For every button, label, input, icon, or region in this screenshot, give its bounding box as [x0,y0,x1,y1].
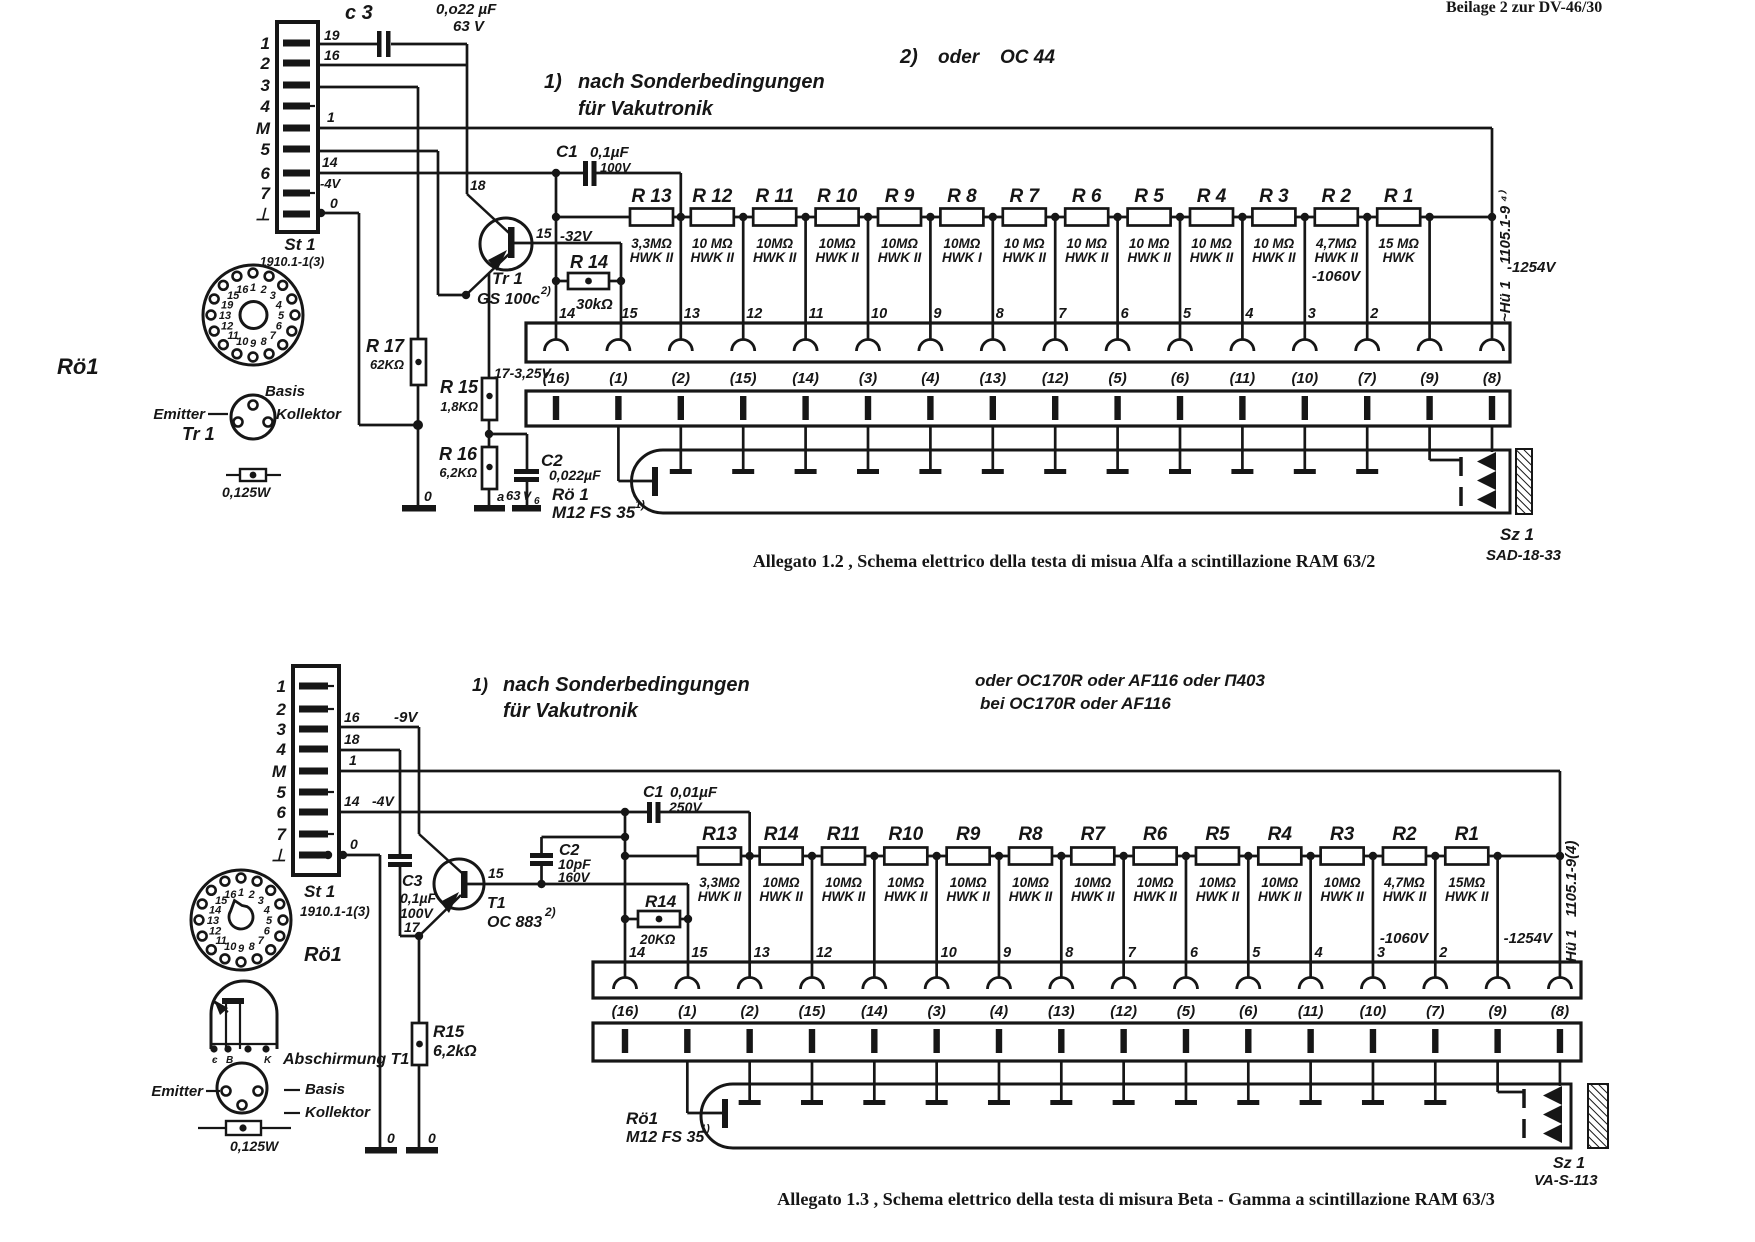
svg-text:R2: R2 [1392,824,1417,845]
wire pin GND (0) [317,195,418,425]
dynode 8 (bottom tube) [1175,1061,1197,1105]
label Hue 1 1105.1-9(4) (bottom, vertical) [1563,841,1580,962]
svg-text:R15: R15 [433,1022,465,1041]
svg-text:15MΩ: 15MΩ [1448,875,1485,890]
svg-text:4: 4 [260,97,271,116]
svg-text:(1): (1) [609,370,627,387]
svg-text:(5): (5) [1177,1003,1195,1020]
svg-text:(6): (6) [1239,1003,1257,1020]
transistor Tr1 GS100c [462,177,621,308]
svg-text:HWK II: HWK II [946,889,990,904]
svg-text:R 8: R 8 [947,186,977,207]
svg-text:R9: R9 [956,824,981,845]
svg-text:10MΩ: 10MΩ [756,236,793,251]
svg-text:(4): (4) [990,1003,1008,1020]
wire pin3 to R17 [318,87,418,339]
wire pin M (1) bottom rail [339,752,1560,771]
svg-text:HWK II: HWK II [1252,250,1296,265]
svg-text:(16): (16) [543,370,570,387]
svg-text:7: 7 [258,935,265,947]
svg-text:2: 2 [248,889,255,901]
svg-text:63 V: 63 V [453,18,486,35]
resistor R5 (bottom chain) [1196,824,1240,904]
svg-text:Hü 1 1105.1-9(4): Hü 1 1105.1-9(4) [1563,841,1580,962]
svg-text:HWK II: HWK II [1320,889,1364,904]
svg-text:Rö1: Rö1 [304,944,342,966]
svg-text:6: 6 [261,164,271,183]
svg-text:(14): (14) [861,1003,888,1020]
svg-text:(2): (2) [672,370,690,387]
svg-text:Sz 1: Sz 1 [1553,1155,1585,1172]
svg-text:(9): (9) [1488,1003,1506,1020]
svg-text:⊥: ⊥ [271,846,286,865]
transistor package Abschirmung T1 [210,981,409,1068]
dynode 9 (top tube) [1169,426,1191,474]
svg-text:-1060V: -1060V [1380,930,1430,947]
svg-text:10MΩ: 10MΩ [1012,875,1049,890]
svg-text:OC 883: OC 883 [487,914,542,931]
svg-text:0: 0 [387,1130,395,1146]
ground 0 (bottom left) [365,1130,397,1154]
svg-text:є: є [212,1055,218,1066]
svg-text:HWK II: HWK II [1003,250,1047,265]
svg-text:(13): (13) [1048,1003,1075,1020]
svg-text:M12 FS 35: M12 FS 35 [626,1129,705,1146]
label Roe1 M12 FS 35 (bottom tube) [626,1109,710,1146]
resistor R11 (bottom chain) [822,824,866,904]
svg-text:5: 5 [261,140,271,159]
contact labels (16)...(8) (top) [543,370,1502,387]
svg-text:10MΩ: 10MΩ [763,875,800,890]
svg-text:250V: 250V [668,799,703,815]
wire pin1 (19) to C3 [318,27,467,44]
svg-text:-1060V: -1060V [1312,268,1362,285]
svg-text:(1): (1) [678,1003,696,1020]
svg-text:5: 5 [1252,945,1261,961]
resistor R7 (bottom chain) [1071,824,1115,904]
svg-text:R4: R4 [1268,824,1293,845]
svg-text:HWK II: HWK II [878,250,922,265]
dynode 9 (bottom tube) [1237,1061,1259,1105]
svg-text:1: 1 [238,887,244,899]
svg-text:4: 4 [1244,306,1253,322]
svg-text:Beilage 2 zur DV-46/30: Beilage 2 zur DV-46/30 [1446,0,1602,16]
svg-text:10MΩ: 10MΩ [1261,875,1298,890]
svg-text:10 MΩ: 10 MΩ [1066,236,1107,251]
svg-text:2: 2 [1369,306,1378,322]
svg-text:14: 14 [629,945,645,961]
dynode 4 (top tube) [857,426,879,474]
transistor T1 OC883 [419,859,688,936]
svg-text:13: 13 [207,915,219,927]
svg-text:R 6: R 6 [1072,186,1102,207]
svg-text:(3): (3) [927,1003,945,1020]
resistor R10 (bottom chain) [884,824,928,904]
svg-text:17: 17 [404,919,421,935]
svg-text:2): 2) [540,285,551,297]
scintillator triangles (bottom) [1543,1061,1562,1143]
ground 0 (bottom, R15) [406,1130,438,1154]
svg-text:St 1: St 1 [284,235,315,254]
svg-text:5: 5 [277,783,287,802]
photocathode (bottom tube) [687,1061,728,1128]
svg-text:16: 16 [324,47,340,63]
resistor R16 6,2k (top) [439,444,497,505]
svg-text:6,2KΩ: 6,2KΩ [439,465,477,480]
svg-text:6: 6 [276,321,283,333]
svg-text:(10): (10) [1291,370,1318,387]
svg-text:160V: 160V [558,870,591,885]
svg-text:-32V: -32V [560,228,594,245]
svg-text:4: 4 [1314,945,1323,961]
svg-text:8: 8 [261,336,268,348]
svg-text:HWK II: HWK II [1315,250,1359,265]
label -1254V (bottom) [1504,930,1554,947]
wire bottom chain [625,852,1564,860]
svg-text:7: 7 [1058,306,1067,322]
svg-text:3: 3 [277,720,287,739]
resistor R8 (top chain) [940,186,983,265]
svg-text:1): 1) [700,1123,710,1135]
svg-text:1: 1 [327,109,335,125]
bottom -4V rail (x=625) [621,812,629,978]
svg-text:HWK II: HWK II [1445,889,1489,904]
svg-text:(7): (7) [1426,1003,1444,1020]
svg-text:Rö1: Rö1 [57,354,99,379]
svg-text:Abschirmung T1: Abschirmung T1 [282,1051,409,1068]
svg-text:für Vakutronik: für Vakutronik [503,700,639,722]
svg-text:Kollektor: Kollektor [276,406,342,423]
svg-text:HWK II: HWK II [884,889,928,904]
svg-text:⊥: ⊥ [255,205,270,224]
svg-text:(15): (15) [799,1003,826,1020]
resistor R3 (top chain) [1252,186,1296,265]
svg-text:(6): (6) [1171,370,1189,387]
svg-text:(4): (4) [921,370,939,387]
svg-text:R 4: R 4 [1197,186,1227,207]
svg-text:R10: R10 [888,824,923,845]
svg-text:C1: C1 [556,142,578,161]
tube base pin row (top) [526,391,1510,426]
dynode 10 (bottom tube) [1300,1061,1322,1105]
svg-text:10MΩ: 10MΩ [943,236,980,251]
svg-text:-1254V: -1254V [1504,930,1554,947]
label -1060V (bottom R2) [1380,930,1430,947]
svg-text:15: 15 [691,945,708,961]
svg-text:-9V: -9V [394,709,419,726]
svg-text:(12): (12) [1042,370,1069,387]
svg-text:R 3: R 3 [1259,186,1289,207]
resistor R3 (bottom chain) [1320,824,1364,904]
svg-text:12: 12 [816,945,832,961]
resistor 0,125W (top left) [222,469,281,500]
dynode 3 (top tube) [795,426,817,474]
svg-text:12: 12 [221,321,233,333]
svg-text:4,7MΩ: 4,7MΩ [1383,875,1425,890]
svg-text:63: 63 [506,488,521,503]
svg-text:V: V [523,489,532,503]
svg-text:0: 0 [428,1130,436,1146]
node 0 junction (top) [413,385,423,505]
svg-text:15: 15 [536,225,552,241]
svg-text:M12 FS 35: M12 FS 35 [552,503,636,522]
wire pin5 to emitter node [318,151,466,295]
svg-text:M: M [256,119,271,138]
svg-text:R8: R8 [1018,824,1043,845]
resistor R13 (top chain) [630,186,674,265]
wire top chain [556,213,1496,221]
svg-text:R 2: R 2 [1322,186,1352,207]
svg-text:100V: 100V [600,160,632,175]
svg-text:1: 1 [250,282,256,294]
svg-text:R 12: R 12 [692,186,733,207]
svg-text:Tr 1: Tr 1 [182,424,215,444]
svg-text:1): 1) [635,499,645,511]
svg-text:10MΩ: 10MΩ [1137,875,1174,890]
svg-text:VA-S-113: VA-S-113 [1534,1172,1598,1189]
svg-text:6: 6 [1190,945,1199,961]
svg-text:R 13: R 13 [631,186,672,207]
svg-text:0: 0 [350,836,358,852]
svg-text:14: 14 [322,154,338,170]
svg-text:oder OC170R oder AF116 oder Π4: oder OC170R oder AF116 oder Π403 [975,671,1266,690]
tube socket Roe1 (top left) [57,265,303,379]
svg-text:R5: R5 [1205,824,1230,845]
svg-text:HWK II: HWK II [1196,889,1240,904]
svg-text:R13: R13 [702,824,737,845]
svg-text:1: 1 [261,34,270,53]
svg-text:nach Sonderbedingungen: nach Sonderbedingungen [578,71,825,93]
capacitor C2 0,022uF 63V (top) [506,451,601,507]
wire M rail drop (x=1492) [1491,128,1494,217]
svg-text:R6: R6 [1143,824,1168,845]
resistor R9 (top chain) [878,186,922,265]
svg-text:3: 3 [1377,945,1385,961]
anode wire + dashed anode (top tube) [1430,426,1461,509]
svg-text:9: 9 [933,306,941,322]
resistor R6 (bottom chain) [1133,824,1177,904]
svg-text:~Hü 1 1105.1-9 ⁴⁾: ~Hü 1 1105.1-9 ⁴⁾ [1497,189,1514,322]
svg-text:(8): (8) [1551,1003,1569,1020]
scintillator hatched block Sz1 (bottom) [1588,1084,1608,1148]
svg-text:HWK II: HWK II [1065,250,1109,265]
svg-text:8: 8 [996,306,1005,322]
header Beilage 2 zur DV-46/30 [1446,0,1602,16]
svg-text:St 1: St 1 [304,882,335,901]
transistor T1 pinout (bottom left) [151,1063,371,1121]
svg-text:10MΩ: 10MΩ [819,236,856,251]
note oder OC170R oder AF116 oder Pi403 [975,671,1266,713]
svg-text:OC 44: OC 44 [1000,47,1055,68]
svg-text:12: 12 [209,926,221,938]
svg-text:Allegato 1.3 , Schema elettric: Allegato 1.3 , Schema elettrico della te… [777,1189,1495,1209]
ground C2 (top) [512,505,541,512]
svg-text:HWK II: HWK II [1009,889,1053,904]
wire C3 to collector node (vertical x=467) [466,44,469,194]
capacitor C1 0,01uF 250V (bottom) [621,784,750,856]
svg-text:HWK II: HWK II [691,250,735,265]
svg-text:HWK II: HWK II [1258,889,1302,904]
resistor R1 (bottom chain) [1445,824,1489,904]
svg-text:19: 19 [324,27,340,43]
caption Allegato 1.2 [753,551,1375,571]
tube socket Roe1 (bottom left) [191,870,342,970]
capacitor C3 0,022uF 63V [345,1,497,57]
connector St1 (bottom schematic) [271,666,370,919]
svg-text:HWK II: HWK II [822,889,866,904]
dynode 10 (top tube) [1231,426,1253,474]
dynode 5 (bottom tube) [988,1061,1010,1105]
wire pin M (1) top rail [318,109,1492,128]
svg-text:1): 1) [544,71,562,93]
resistor R2 (bottom chain) [1383,824,1427,904]
transistor Tr1 pinout (top left) [153,383,342,444]
svg-text:(2): (2) [740,1003,758,1020]
svg-text:3: 3 [261,76,271,95]
label Sz 1 VA-S-113 [1534,1155,1598,1189]
dynode 1 (top tube) [670,426,692,474]
resistor R13 (bottom chain) [698,824,742,904]
resistor R4 (bottom chain) [1258,824,1302,904]
dynode 5 (top tube) [919,426,941,474]
svg-text:0: 0 [424,488,432,504]
svg-text:R 14: R 14 [570,252,608,272]
svg-text:1: 1 [349,752,357,768]
svg-text:11: 11 [809,306,824,322]
label Sz 1 SAD-18-33 [1486,525,1562,564]
svg-text:16: 16 [224,889,237,901]
svg-text:(11): (11) [1298,1003,1324,1020]
label -1254V (top) [1507,259,1557,276]
svg-text:0,1µF: 0,1µF [400,890,437,906]
-32V rail (vertical x=556) [552,173,560,339]
svg-text:M: M [272,762,287,781]
svg-text:GS 100c: GS 100c [477,291,540,308]
node 17 (T1 collector) [404,919,423,940]
resistor R9 (bottom chain) [946,824,990,904]
dynode 12 (bottom tube) [1424,1061,1446,1105]
svg-text:10MΩ: 10MΩ [1074,875,1111,890]
svg-text:0,125W: 0,125W [222,484,272,500]
resistor R14 (bottom chain) [759,824,803,904]
svg-text:7: 7 [1128,945,1137,961]
note 1) nach Sonderbedingungen fuer Vakutronik (top) [544,71,825,120]
svg-text:(14): (14) [792,370,819,387]
svg-text:R 5: R 5 [1134,186,1164,207]
svg-text:1): 1) [472,675,488,695]
svg-text:10 MΩ: 10 MΩ [1191,236,1232,251]
capacitor C2 10pF 160V (bottom) [530,837,625,888]
svg-text:16: 16 [236,284,249,296]
dynode 11 (top tube) [1294,426,1316,474]
resistor R10 (top chain) [815,186,859,265]
svg-text:10MΩ: 10MΩ [1324,875,1361,890]
svg-text:6: 6 [1121,306,1130,322]
svg-text:0,022µF: 0,022µF [549,467,601,483]
svg-text:14: 14 [559,306,575,322]
svg-text:16: 16 [344,709,360,725]
svg-text:3,3MΩ: 3,3MΩ [631,236,672,251]
photocathode (top tube) [618,426,658,496]
svg-text:(12): (12) [1110,1003,1137,1020]
svg-text:C1: C1 [643,784,664,801]
resistor R7 (top chain) [1003,186,1047,265]
svg-text:13: 13 [754,945,770,961]
svg-text:10: 10 [871,306,887,322]
svg-text:HWK II: HWK II [1133,889,1177,904]
wire pin3 (16, -9V) to T1 emitter [339,709,462,873]
svg-text:10MΩ: 10MΩ [1199,875,1236,890]
svg-text:10: 10 [941,945,957,961]
svg-text:(10): (10) [1360,1003,1387,1020]
wire M rail drop (bottom, x=1560) [1559,771,1562,856]
svg-text:10 MΩ: 10 MΩ [1004,236,1045,251]
scintillator triangles (top) [1477,426,1496,509]
svg-text:6: 6 [277,803,287,822]
svg-text:HWK II: HWK II [1383,889,1427,904]
wire pin4 (18) to C3 [339,731,400,854]
svg-text:10MΩ: 10MΩ [825,875,862,890]
capacitor C1 0,1uF 100V (top) [552,142,681,217]
svg-text:(13): (13) [979,370,1006,387]
svg-text:10 MΩ: 10 MΩ [692,236,733,251]
svg-text:HWK II: HWK II [1071,889,1115,904]
svg-text:R 17: R 17 [366,336,405,356]
ground 0 (top left) [402,488,436,512]
svg-text:SAD-18-33: SAD-18-33 [1486,547,1562,564]
dynode 2 (bottom tube) [801,1061,823,1105]
scintillator hatched block Sz1 (top) [1516,449,1532,514]
svg-text:oder: oder [938,47,981,68]
svg-text:2: 2 [276,700,287,719]
label 17-3,25V [494,365,552,381]
wire pin2 (16) [318,47,467,65]
connector Hue1 contact row (bottom) [593,962,1581,998]
svg-text:HWK: HWK [1383,250,1416,265]
svg-text:R 15: R 15 [440,377,479,397]
connector St 1 (top schematic) [255,22,324,269]
dynode 1 (bottom tube) [739,1061,761,1105]
svg-text:2): 2) [899,46,918,68]
svg-text:Tr 1: Tr 1 [492,269,523,288]
svg-text:-4V: -4V [320,176,342,191]
svg-text:6,2kΩ: 6,2kΩ [433,1043,477,1060]
pin number labels above connector (top) [559,306,1378,322]
note 1) nach Sonderbedingungen (bottom) [472,674,750,722]
resistor R12 (top chain) [691,186,735,265]
svg-text:C3: C3 [402,873,423,890]
svg-text:Sz 1: Sz 1 [1500,525,1534,544]
svg-text:R11: R11 [827,824,860,845]
svg-text:Rö1: Rö1 [626,1109,658,1128]
svg-text:HWK II: HWK II [1190,250,1234,265]
svg-text:2): 2) [544,905,556,919]
resistor R6 (top chain) [1065,186,1109,265]
svg-text:HWK II: HWK II [759,889,803,904]
resistor R14 20k (bottom) [621,884,692,978]
svg-text:2: 2 [1438,945,1447,961]
connector Hue1 contact row (top) [526,323,1510,362]
svg-text:Basis: Basis [305,1081,345,1098]
svg-text:T1: T1 [487,895,506,912]
svg-text:10MΩ: 10MΩ [881,236,918,251]
dynode 8 (top tube) [1107,426,1129,474]
node R15/R16 (top) [485,420,527,469]
label Roe 1 M12 FS 35 (top tube) [552,485,645,522]
svg-text:HWK II: HWK II [1127,250,1171,265]
svg-text:HWK II: HWK II [698,889,742,904]
svg-text:R 16: R 16 [439,444,478,464]
